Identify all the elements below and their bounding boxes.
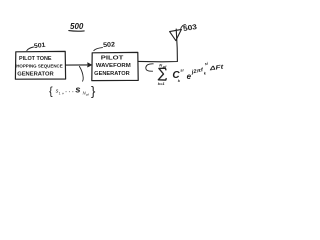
svg-text:e: e <box>187 72 192 81</box>
coefficient C_k^si <box>172 68 184 83</box>
box 502 text: PILOT <box>101 56 124 62</box>
wire box 502 to antenna <box>138 29 177 62</box>
svg-text:HOPPING SEQUENCE: HOPPING SEQUENCE <box>16 63 63 69</box>
antenna 503 <box>170 29 182 40</box>
svg-text:1: 1 <box>59 91 61 95</box>
svg-text:k=1: k=1 <box>158 81 166 86</box>
summation lower limit k=1 <box>158 81 166 86</box>
underline of 500 <box>69 30 84 33</box>
svg-text:502: 502 <box>103 41 116 49</box>
leader for 503 <box>181 24 186 28</box>
label 503 <box>182 22 197 33</box>
box 501 text: HOPPING SEQUENCE <box>16 63 63 69</box>
svg-text:500: 500 <box>70 22 84 31</box>
leader for 502 <box>94 48 103 51</box>
svg-text:501: 501 <box>34 42 47 50</box>
box: pilot tone hopping sequence generator 501 <box>15 51 65 79</box>
svg-text:pil: pil <box>85 93 89 97</box>
svg-text:PILOT: PILOT <box>101 56 124 62</box>
svg-text:PILOT TONE: PILOT TONE <box>19 56 52 62</box>
arrowhead into box 502 <box>88 63 92 67</box>
wire arrow box 501 to box 502 <box>66 64 91 66</box>
leader hook from formula to wire <box>146 64 153 71</box>
box: pilot waveform generator 502 <box>92 52 138 80</box>
set label {s1,...,sNpil} <box>49 83 96 98</box>
figure label 500 <box>70 22 84 31</box>
svg-text:WAVEFORM: WAVEFORM <box>96 63 131 69</box>
svg-text:GENERATOR: GENERATOR <box>17 72 54 78</box>
svg-text:{: { <box>49 86 53 98</box>
exponential e^(j2*pi*f_k^si * dF t) <box>187 61 226 81</box>
summation sigma <box>158 68 166 80</box>
box 502 text: GENERATOR <box>94 71 130 77</box>
svg-text:,···: ,··· <box>62 89 76 95</box>
box 501 text: PILOT TONE <box>19 56 52 62</box>
leader from wire down to set label <box>79 66 83 81</box>
summation upper limit Npil <box>159 63 166 69</box>
svg-text:}: } <box>91 83 96 98</box>
svg-text:N: N <box>159 63 162 68</box>
box 501 text: GENERATOR <box>17 72 54 78</box>
svg-text:s: s <box>75 84 80 95</box>
svg-text:GENERATOR: GENERATOR <box>94 71 130 77</box>
box 502 text: WAVEFORM <box>96 63 131 69</box>
label 501 <box>34 42 47 50</box>
leader for 501 <box>27 47 34 51</box>
label 502 <box>103 41 116 49</box>
